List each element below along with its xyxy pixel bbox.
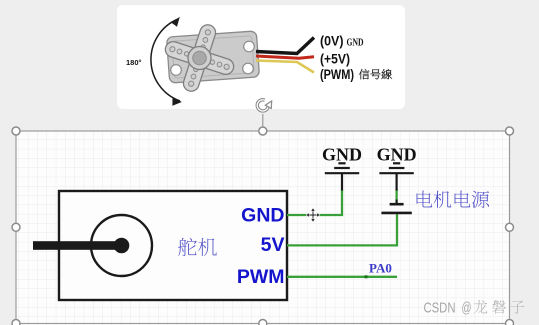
selection handle 1 bbox=[12, 127, 20, 135]
svg-text:GND: GND bbox=[347, 38, 364, 49]
selection handle 4 bbox=[12, 223, 20, 231]
svg-text:GND: GND bbox=[241, 205, 284, 227]
ground symbol GND1 bbox=[325, 163, 359, 190]
schematic grid bbox=[16, 131, 510, 325]
component name 舵机 bbox=[178, 238, 197, 256]
ground symbol GND2 bbox=[379, 163, 413, 190]
svg-text:180°: 180° bbox=[126, 58, 142, 67]
selection handle 5 bbox=[506, 223, 514, 231]
servo body (gray case) bbox=[167, 31, 260, 83]
rotate handle stem bbox=[262, 114, 264, 127]
battery BT1 (motor power) bbox=[381, 200, 411, 213]
svg-text:CSDN: CSDN bbox=[424, 301, 456, 317]
battery label 电机电源 bbox=[417, 191, 433, 208]
selection handle 8 bbox=[506, 320, 514, 325]
schematic canvas white background bbox=[16, 131, 510, 325]
svg-text:(+5V): (+5V) bbox=[320, 52, 350, 67]
wire label (0V) GND bbox=[320, 34, 364, 49]
servo arm bar bbox=[33, 241, 122, 250]
red servo wire (+5V) bbox=[256, 56, 314, 58]
servo photo card background bbox=[117, 5, 405, 109]
yellow servo wire (PWM) bbox=[256, 61, 314, 73]
wire GND pin to ground bbox=[287, 190, 342, 215]
servo shaft center dot bbox=[114, 238, 130, 254]
wire 5V pin to battery bbox=[287, 214, 397, 246]
svg-text:PA0: PA0 bbox=[369, 261, 392, 276]
selection handle 2 bbox=[259, 127, 267, 135]
rotate handle icon bbox=[257, 100, 271, 111]
svg-text:GND: GND bbox=[377, 144, 417, 164]
selection rectangle bbox=[16, 131, 510, 324]
net label anchor tick bbox=[365, 275, 368, 278]
svg-text:PWM: PWM bbox=[237, 266, 285, 288]
watermark 龙磐子 bbox=[474, 300, 488, 314]
svg-text:GND: GND bbox=[322, 144, 362, 164]
selection handle 6 bbox=[12, 320, 20, 325]
servo mounting holes bbox=[171, 41, 255, 75]
wire battery top to ground 2 bbox=[395, 189, 397, 203]
move cursor bbox=[306, 208, 320, 222]
selection handle 7 bbox=[259, 320, 267, 325]
svg-text:(PWM): (PWM) bbox=[320, 67, 354, 82]
servo horn (cross arm) bbox=[155, 14, 244, 102]
servo shaft circle bbox=[91, 215, 152, 276]
180-degree rotation arc arrow bbox=[151, 17, 182, 106]
servo component U1 rectangle 舵机 bbox=[59, 191, 287, 300]
svg-text:5V: 5V bbox=[261, 234, 285, 256]
wire PWM pin net PA0 bbox=[287, 276, 397, 278]
wire label (PWM) 信号线 bbox=[320, 67, 392, 82]
svg-text:@: @ bbox=[462, 301, 472, 317]
selection handle 3 bbox=[506, 127, 514, 135]
black servo wire (0V) bbox=[256, 38, 314, 54]
svg-text:(0V): (0V) bbox=[320, 34, 344, 49]
servo horn hub bbox=[188, 47, 211, 70]
